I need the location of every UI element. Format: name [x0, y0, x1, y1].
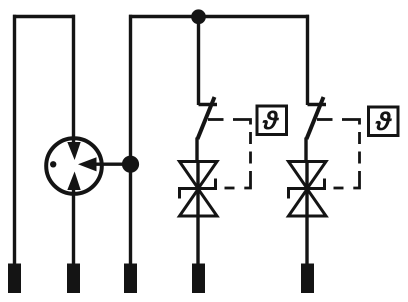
junction: top bus node [191, 9, 206, 24]
spark gap: top electrode arrow [67, 142, 80, 160]
wire: spark-gap lower lead [72, 180, 75, 264]
TVS suppressor 1: through conductor [196, 161, 199, 264]
wire: top-right horizontal bus [129, 15, 309, 18]
thermal sensor symbol 2 [375, 111, 391, 130]
thermal disconnect switch 2: fixed contact stub [308, 103, 327, 106]
terminal 2 [67, 264, 80, 294]
wire: branch-2 drop from top bus to disconnect switch [306, 15, 309, 105]
thermal disconnect switch 2: blade [307, 97, 324, 139]
TVS suppressor 1: breakdown bar with hooks [180, 179, 216, 199]
thermal sensor symbol 1 [263, 111, 279, 130]
terminal 4 [192, 264, 205, 294]
thermal disconnect switch 1: fixed contact stub [199, 103, 218, 106]
terminal 5 [301, 264, 314, 294]
wire: branch-1 switch to suppressor [195, 138, 198, 164]
wire: middle vertical (terminal 3 riser) [129, 15, 132, 264]
dashed link 1: thermal trip linkage (switch to sensor to suppressor midpoint) [208, 120, 251, 189]
TVS suppressor 2: upper diode triangle [289, 162, 327, 189]
wire: branch-2 switch to suppressor [304, 138, 307, 164]
TVS suppressor 1: lower diode triangle [180, 189, 218, 216]
junction: middle node on terminal-3 riser [122, 156, 139, 173]
thermal sensor box 2 [369, 107, 399, 136]
TVS suppressor 2: through conductor [305, 161, 308, 264]
wire: spark-gap upper lead [72, 15, 75, 150]
terminal 3 [124, 264, 137, 294]
thermal sensor box 1 [257, 106, 287, 135]
thermal disconnect switch 1: blade [198, 97, 215, 139]
wire: branch-1 drop from top node to disconnect switch [197, 17, 200, 106]
wire: horizontal link from middle node to spark gap [94, 162, 131, 165]
dashed link 2: thermal trip linkage (switch to sensor to suppressor midpoint) [317, 120, 360, 189]
terminal 1 [8, 264, 21, 294]
TVS suppressor 1: upper diode triangle [180, 162, 218, 189]
spark gap: circle envelope [46, 138, 102, 194]
wire: top-left horizontal bus [13, 15, 75, 18]
TVS suppressor 2: breakdown bar with hooks [289, 179, 325, 199]
TVS suppressor 2: lower diode triangle [289, 189, 327, 216]
spark gap: bottom electrode arrow [67, 172, 80, 191]
spark gap: auxiliary electrode dot [50, 161, 56, 167]
wire: left vertical (terminal 1 riser) [13, 15, 16, 264]
spark gap: side electrode arrowhead [78, 157, 97, 171]
